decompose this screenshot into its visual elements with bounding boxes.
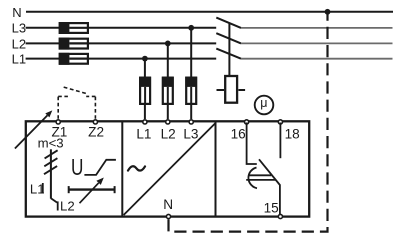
arrow to remote contact	[15, 110, 52, 148]
contact 16 lead	[247, 123, 257, 165]
changeover blade to 15	[259, 159, 280, 214]
svg-text:L2: L2	[161, 127, 176, 142]
junction on L3	[188, 25, 194, 31]
svg-text:L1: L1	[136, 127, 151, 142]
wire L3 right	[88, 27, 216, 29]
svg-text:L3: L3	[12, 21, 26, 36]
wire out pole 1	[241, 27, 393, 29]
measuring line with hatches	[44, 149, 58, 202]
divider right	[215, 121, 217, 216]
svg-text:L3: L3	[183, 127, 198, 142]
terminal N	[166, 214, 170, 218]
fuse on L3	[59, 22, 88, 34]
svg-text:18: 18	[285, 126, 300, 141]
relay box	[26, 121, 309, 216]
terminal L2	[166, 120, 170, 124]
dashed remote contact blade	[64, 87, 86, 93]
dashed remote contact Z1 post	[57, 96, 59, 118]
switch linkage	[228, 23, 230, 77]
svg-text:16: 16	[231, 126, 246, 141]
svg-text:L2: L2	[12, 36, 26, 51]
terminal 18	[278, 120, 282, 124]
switch blade pole 3	[216, 49, 241, 59]
vertical fuse on L3 drop	[185, 77, 197, 104]
svg-text:N: N	[163, 197, 173, 212]
wire L1 left	[26, 58, 60, 60]
wire drop from L1	[144, 59, 146, 77]
vertical fuse on L1 drop	[139, 77, 151, 104]
svg-text:m<3: m<3	[38, 136, 64, 151]
dashed remote contact stub right	[86, 95, 95, 97]
svg-text:U: U	[71, 154, 83, 180]
svg-text:L2: L2	[60, 198, 75, 213]
release coil	[217, 76, 246, 103]
wire L3 left	[26, 27, 60, 29]
svg-text:L1: L1	[30, 181, 45, 196]
wire N	[26, 11, 393, 13]
wire out pole 3	[241, 58, 393, 60]
wire L1 right	[88, 58, 216, 60]
wire L2 left	[26, 42, 60, 44]
wire L1 drop to terminal	[144, 105, 146, 119]
contactor coil mu	[255, 96, 274, 115]
supply diagonal	[124, 123, 216, 215]
svg-text:15: 15	[264, 200, 279, 215]
wire out pole 2	[241, 42, 393, 44]
junction on L1	[142, 56, 148, 62]
step symbol	[84, 160, 116, 175]
fuse on L2	[59, 38, 88, 50]
tap L1 tick	[42, 183, 44, 194]
changeover bar upper	[249, 174, 271, 176]
divider left	[121, 121, 123, 216]
junction on L2	[165, 41, 171, 47]
terminal 16	[245, 120, 249, 124]
fuse on L1	[59, 53, 88, 65]
changeover arc	[248, 168, 257, 189]
adjustment arrow	[80, 178, 104, 204]
terminal Z1	[56, 120, 60, 124]
wire drop from L2	[167, 43, 169, 77]
terminal Z2	[93, 120, 97, 124]
wire L2 drop to terminal	[167, 105, 169, 119]
dashed N connection	[169, 12, 328, 232]
terminal L3	[189, 120, 193, 124]
tap L2 tick	[57, 201, 59, 210]
dashed remote contact stub	[58, 95, 68, 97]
adjustment range bar	[69, 186, 115, 193]
dashed remote contact Z2 post	[94, 96, 96, 118]
switch blade pole 1	[216, 18, 241, 28]
svg-text:Z2: Z2	[88, 125, 104, 140]
AC supply symbol	[128, 166, 145, 170]
terminal L1	[143, 120, 147, 124]
terminal 15	[278, 214, 282, 218]
junction N line	[325, 9, 331, 15]
svg-text:N: N	[12, 5, 21, 20]
svg-text:μ: μ	[260, 96, 267, 110]
wire L3 drop to terminal	[190, 105, 192, 119]
wire drop from L3	[190, 28, 192, 77]
wire L2 right	[88, 42, 216, 44]
vertical fuse on L2 drop	[162, 77, 174, 104]
switch blade pole 2	[216, 33, 241, 43]
changeover bar lower	[246, 179, 275, 181]
contact 18 lead	[279, 123, 281, 159]
svg-text:L1: L1	[12, 52, 26, 67]
